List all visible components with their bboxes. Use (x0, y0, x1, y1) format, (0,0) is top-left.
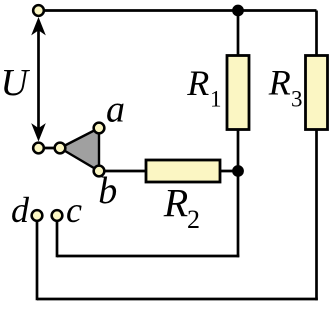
wire J2 down to c horizontal (237, 171, 240, 257)
terminal left-mid T2 (33, 143, 44, 154)
svg-text:2: 2 (187, 205, 200, 234)
svg-text:b: b (98, 170, 117, 212)
svg-text:R: R (268, 63, 291, 103)
wire R2 right to junction J2 (219, 170, 238, 173)
wire R1 bottom to junction J2 (237, 129, 240, 171)
wire R3 bottom down right side (315, 129, 318, 300)
svg-text:1: 1 (210, 87, 222, 112)
terminal T3 triangle left (55, 143, 66, 154)
wire terminal T2 to triangle left vertex (39, 147, 61, 150)
wire right branch down to R3 top (315, 11, 318, 57)
voltage arrow U shaft (37, 28, 40, 130)
resistor R3 body (306, 56, 328, 130)
wire up to terminal c (56, 217, 59, 257)
voltage arrow U upper head (31, 17, 46, 35)
svg-text:R: R (186, 63, 209, 103)
svg-text:a: a (106, 89, 125, 131)
terminal top-left (33, 5, 44, 16)
terminal a (94, 123, 105, 134)
wire b to R2 left (99, 170, 147, 173)
resistor R2 body (146, 160, 220, 182)
svg-text:3: 3 (291, 87, 303, 112)
junction J1 (232, 5, 244, 17)
junction J2 (232, 165, 244, 177)
wire c horizontal (57, 255, 239, 258)
terminal b (94, 166, 105, 177)
wire top horizontal (39, 9, 317, 12)
resistor R1 body (227, 56, 249, 130)
svg-text:U: U (1, 62, 31, 104)
potentiometer wiper triangle (60, 128, 99, 171)
wire bottom horizontal to d (37, 298, 318, 301)
svg-text:c: c (66, 190, 82, 230)
wire junction J1 down to R1 top (237, 11, 240, 57)
svg-text:d: d (11, 190, 30, 230)
svg-text:R: R (163, 180, 188, 225)
terminal d (32, 210, 43, 221)
voltage arrow U lower head (31, 123, 46, 141)
wire up to terminal d (36, 217, 39, 300)
terminal c (52, 210, 63, 221)
